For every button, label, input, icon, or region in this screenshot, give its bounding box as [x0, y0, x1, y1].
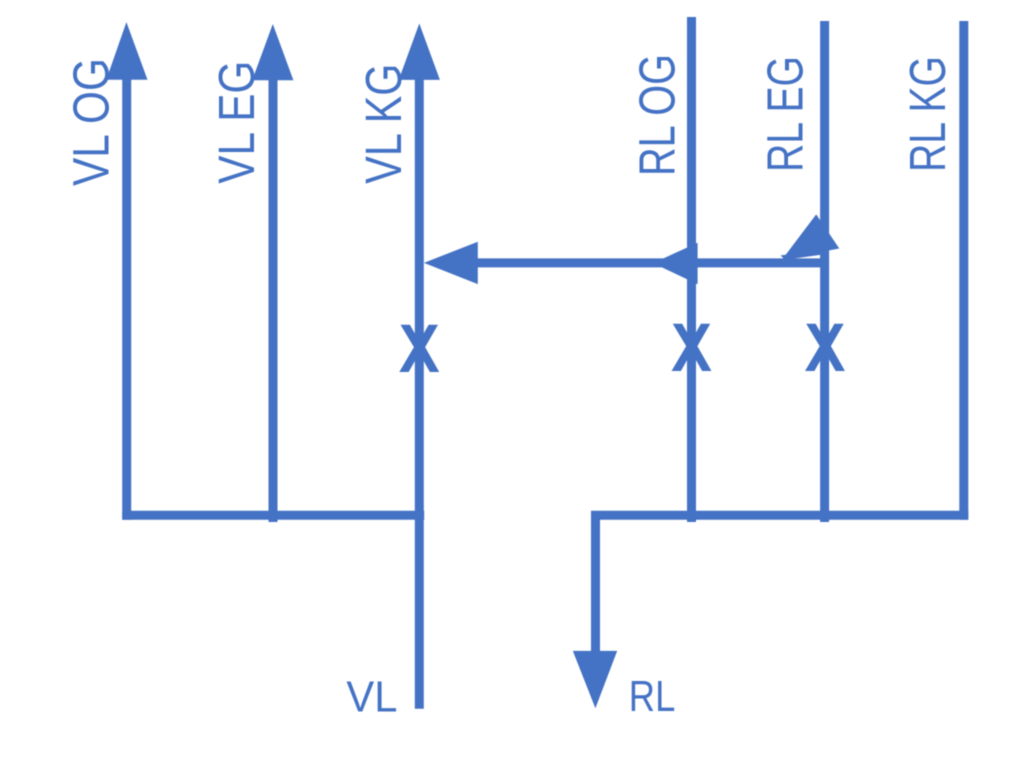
arrowhead cross-connection left at VL KG [424, 242, 478, 284]
wire sliver under check arrowhead [781, 251, 822, 260]
svg-text:X: X [805, 309, 846, 386]
arrowhead VL KG up [399, 24, 440, 80]
svg-text:VL: VL [346, 673, 397, 722]
arrowhead VL OG up [106, 22, 147, 80]
svg-text:RL KG: RL KG [899, 56, 956, 172]
wire VL OG riser [122, 75, 131, 520]
svg-text:RL OG: RL OG [629, 54, 686, 176]
svg-text:VL KG: VL KG [355, 64, 412, 184]
svg-text:VL EG: VL EG [208, 61, 265, 184]
arrowhead cross-connection left at RL OG [653, 243, 698, 284]
wire VL KG riser [415, 75, 424, 709]
wire RL OG riser [687, 17, 696, 522]
wire RL EG riser [820, 21, 829, 522]
wire RL bottom header [591, 511, 968, 520]
wire VL bottom header [122, 511, 424, 520]
wire cross-connection horizontal [477, 258, 825, 267]
arrowhead diagonal check at RL EG [783, 214, 840, 259]
svg-text:X: X [671, 309, 712, 386]
svg-text:RL: RL [629, 672, 676, 721]
svg-text:VL OG: VL OG [63, 58, 120, 186]
arrowhead VL EG up [252, 24, 293, 80]
wire VL EG riser [269, 75, 278, 522]
svg-text:X: X [399, 310, 440, 387]
wire RL KG riser [959, 21, 968, 520]
svg-text:RL EG: RL EG [757, 56, 814, 172]
arrowhead RL down [573, 651, 617, 708]
wire RL drop [591, 511, 600, 655]
